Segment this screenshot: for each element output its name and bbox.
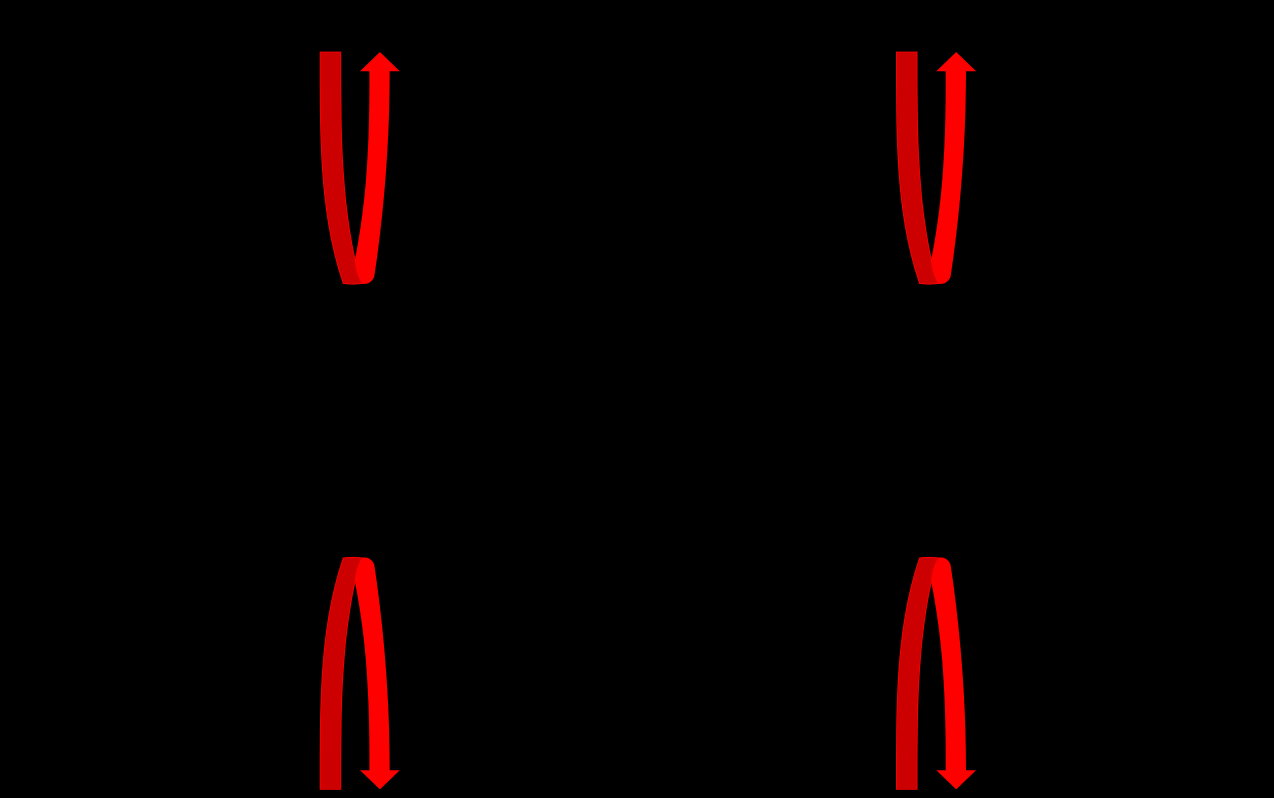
arrow top-right (up) xyxy=(896,52,976,284)
arrow top-left (up) xyxy=(320,52,400,284)
arrow bottom-left (down) xyxy=(320,557,400,789)
arrow bottom-right (down) xyxy=(896,557,976,789)
